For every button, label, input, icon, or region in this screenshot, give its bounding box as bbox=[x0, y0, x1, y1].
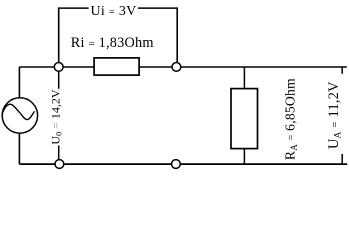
node terminal top-left bbox=[54, 63, 63, 72]
wire: RA top stub bbox=[243, 67, 245, 89]
wire: U0 dimension top stub bbox=[58, 67, 60, 89]
wire: main horizontal wire bbox=[19, 66, 346, 68]
svg-text:RA = 6,85Ohm: RA = 6,85Ohm bbox=[283, 78, 299, 160]
resistor Ri bbox=[94, 58, 139, 75]
svg-text:Ri = 1,83Ohm: Ri = 1,83Ohm bbox=[71, 35, 154, 51]
wire: top bracket right horizontal segment bbox=[138, 7, 178, 9]
resistor RA bbox=[231, 89, 258, 149]
wire: RA bottom stub bbox=[243, 148, 245, 164]
voltage source V1 bbox=[2, 98, 37, 133]
node terminal bottom-right bbox=[172, 160, 181, 169]
wire: top bracket left horizontal segment bbox=[58, 7, 89, 9]
UA dimension stem bottom tick bbox=[341, 154, 343, 164]
wire: top bracket right vertical bbox=[176, 8, 178, 64]
node terminal bottom-left bbox=[55, 160, 64, 169]
svg-text:Ui = 3V: Ui = 3V bbox=[91, 4, 137, 19]
svg-text:UA = 11,2V: UA = 11,2V bbox=[326, 81, 344, 149]
wire: U0 dimension bottom stub bbox=[58, 146, 60, 165]
wire: top bracket left vertical bbox=[58, 8, 60, 64]
node terminal top-right bbox=[172, 63, 181, 72]
sine symbol of source bbox=[3, 104, 35, 119]
svg-text:U0 = 14,2V: U0 = 14,2V bbox=[49, 89, 64, 144]
UA dimension stem top tick bbox=[341, 67, 343, 74]
wire: bottom horizontal wire bbox=[19, 163, 347, 165]
wire: left source branch vertical bbox=[18, 67, 20, 164]
